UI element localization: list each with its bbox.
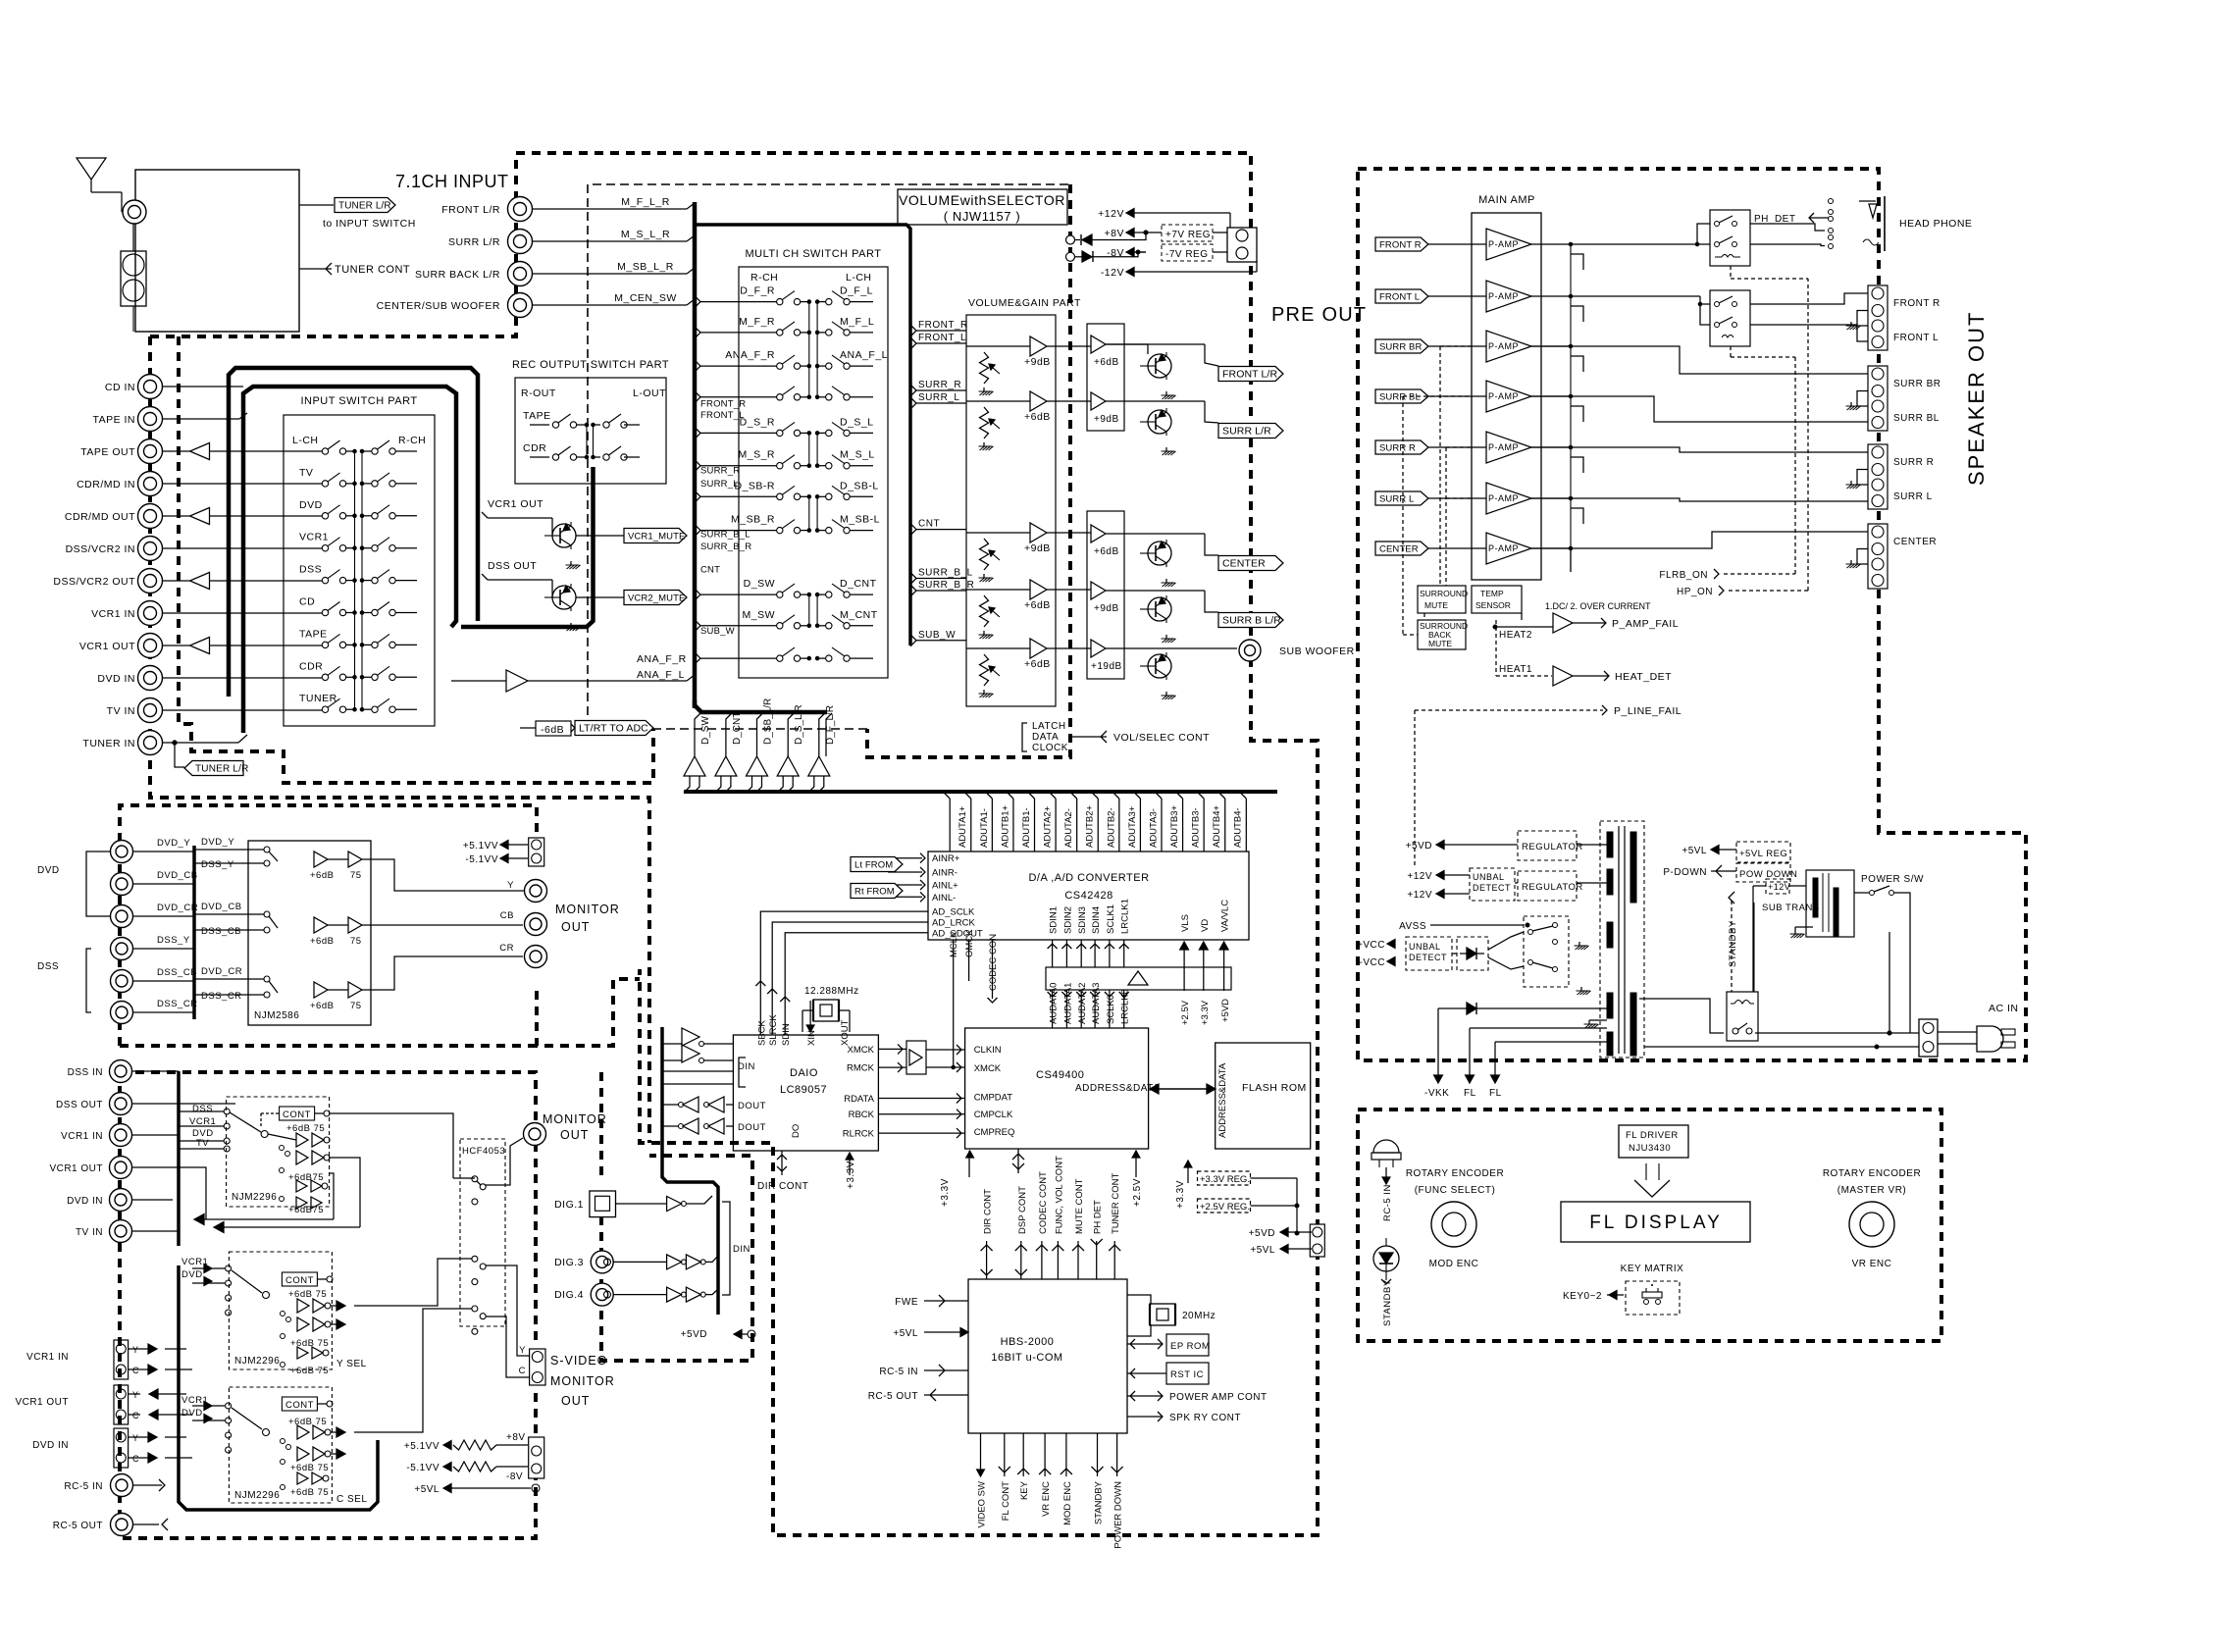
label DAIO <box>790 1067 818 1079</box>
svg-text:Y: Y <box>507 880 514 891</box>
svg-text:S-VIDEO: S-VIDEO <box>550 1354 607 1368</box>
svg-text:VCR1: VCR1 <box>189 1116 216 1127</box>
input switch row CDR <box>299 660 417 680</box>
connector DVD_CR <box>111 903 199 928</box>
wire DSS_Y <box>133 948 194 950</box>
label MAIN AMP <box>1478 194 1535 206</box>
dashed sb mute ctl <box>1403 396 1472 635</box>
svg-text:P-AMP: P-AMP <box>1488 442 1519 452</box>
pin RLRCK <box>843 1129 875 1140</box>
svg-text:+6dB: +6dB <box>310 1001 334 1011</box>
pin ADUTB1+ <box>1000 805 1010 848</box>
wire sw <box>1047 647 1237 649</box>
junction dots row 4 <box>353 579 364 583</box>
svg-text:+5.1VV: +5.1VV <box>463 841 498 852</box>
svg-text:DSS_CB: DSS_CB <box>201 926 241 937</box>
svg-text:OUT: OUT <box>561 1394 590 1408</box>
label SURR_B_R right <box>910 580 974 596</box>
svg-text:RC-5 IN: RC-5 IN <box>64 1481 103 1492</box>
CONT box 3 <box>282 1397 333 1411</box>
connector DSS OUT v <box>56 1093 131 1115</box>
sub trans gnd <box>1790 927 1814 938</box>
amp +9dB s <box>1091 392 1119 425</box>
eprom arrows <box>1127 1339 1163 1349</box>
svg-text:PRE OUT: PRE OUT <box>1271 304 1367 326</box>
wire M_CEN_SW <box>533 292 696 305</box>
ain arrow <box>888 867 925 877</box>
latch bracket <box>1022 721 1068 753</box>
svg-text:( NJW1157 ): ( NJW1157 ) <box>944 209 1021 224</box>
svg-text:CMPREQ: CMPREQ <box>974 1127 1015 1138</box>
amp box 1 <box>1087 324 1124 431</box>
connector 8v hdr <box>529 1437 544 1478</box>
ground preSW <box>1162 692 1176 699</box>
svg-text:P-AMP: P-AMP <box>1488 341 1519 351</box>
hbs pin KEY <box>1017 1433 1030 1500</box>
wires video2 <box>132 1071 235 1231</box>
svg-text:P-AMP: P-AMP <box>1488 391 1519 401</box>
connector power hdr <box>1227 228 1257 262</box>
svg-text:-6dB: -6dB <box>541 724 564 736</box>
svg-text:+19dB: +19dB <box>1091 661 1122 672</box>
svg-text:P_LINE_FAIL: P_LINE_FAIL <box>1614 705 1682 717</box>
label LC89057 <box>780 1084 827 1096</box>
transistor pre F <box>1140 352 1171 380</box>
svg-text:SENSOR: SENSOR <box>1475 600 1511 610</box>
svg-text:DVD: DVD <box>181 1408 203 1419</box>
level arrow D_SB_L/R <box>747 698 774 793</box>
amp +6dB f <box>1091 336 1119 368</box>
label +12V psu2 <box>1407 890 1470 901</box>
multi switch row nc <box>755 387 873 400</box>
svg-text:+2.5V: +2.5V <box>1180 1000 1191 1025</box>
pin lane line <box>964 792 971 852</box>
reg wires <box>1251 1178 1300 1235</box>
svg-text:+3.3V REG.: +3.3V REG. <box>1200 1174 1250 1185</box>
junction dots row 2 <box>353 514 364 518</box>
svg-text:DSS_CB: DSS_CB <box>157 967 197 978</box>
svg-text:SURR BL: SURR BL <box>1893 413 1940 424</box>
winding left <box>1607 832 1613 857</box>
rdata wires <box>879 1094 965 1139</box>
svg-text:CDR: CDR <box>523 442 546 454</box>
svg-text:+6dB 75: +6dB 75 <box>288 1417 327 1427</box>
connector MON Y <box>507 880 546 903</box>
wire FR out <box>1571 224 1710 246</box>
svg-text:FLRB_ON: FLRB_ON <box>1659 570 1708 581</box>
svg-text:12.288MHz: 12.288MHz <box>804 986 859 997</box>
svg-text:XIN: XIN <box>806 1030 817 1046</box>
input switch bus L <box>354 451 356 709</box>
wire CDR/MD IN <box>163 483 323 485</box>
svg-text:7.1CH INPUT: 7.1CH INPUT <box>395 172 509 191</box>
ground preS <box>1162 447 1176 455</box>
wire fl2 <box>1489 1042 1607 1099</box>
wire standby vert <box>1753 903 1755 992</box>
wire c sel to hcf <box>354 1309 472 1432</box>
wire f out <box>1106 344 1218 366</box>
svg-text:AINL+: AINL+ <box>932 881 958 892</box>
din bracket daio <box>738 1058 755 1087</box>
svg-text:TV IN: TV IN <box>76 1227 103 1238</box>
fb jog <box>1570 548 1572 572</box>
njm2 in wires <box>192 1268 225 1283</box>
svg-text:+6dB 75: +6dB 75 <box>290 1487 329 1498</box>
svg-text:CMPDAT: CMPDAT <box>974 1092 1013 1103</box>
transistor pre C <box>1140 540 1171 567</box>
svg-text:+12V: +12V <box>1407 871 1432 882</box>
svg-text:+6dB75: +6dB75 <box>288 1172 324 1183</box>
svg-text:SURR_L: SURR_L <box>700 479 739 490</box>
svg-text:DSS/VCR2 OUT: DSS/VCR2 OUT <box>53 576 135 588</box>
svg-text:UNBAL: UNBAL <box>1473 872 1505 882</box>
connector CDR/MD IN <box>77 472 162 496</box>
connector SURR BACK L/R <box>415 262 533 286</box>
svg-text:TAPE OUT: TAPE OUT <box>80 446 135 458</box>
svg-text:AD_SCLK: AD_SCLK <box>932 907 975 918</box>
svg-text:SURR_R: SURR_R <box>700 466 740 477</box>
pin lane line <box>1091 792 1098 852</box>
svg-text:DOUT: DOUT <box>738 1122 766 1133</box>
svg-text:MULTI CH SWITCH PART: MULTI CH SWITCH PART <box>746 248 882 260</box>
EP ROM box <box>1166 1334 1210 1356</box>
buffer amp ANA_F <box>506 670 528 692</box>
pin lane line <box>943 792 950 852</box>
connector 5.1vv hdr <box>529 838 544 866</box>
clkin wires <box>926 1045 965 1072</box>
labels DVD_Y/DSS_Y <box>201 837 234 870</box>
svg-text:DVD_CB: DVD_CB <box>201 902 242 912</box>
multi switch row D_SB-R <box>734 480 878 499</box>
svg-text:ADUTB2+: ADUTB2+ <box>1085 805 1096 848</box>
pin VLS <box>1180 914 1191 991</box>
box REGULATOR 2 <box>1518 871 1583 901</box>
svg-text:+6dB75: +6dB75 <box>288 1205 324 1215</box>
fb jog <box>1571 457 1583 473</box>
connector VCR1 IN yc <box>26 1340 139 1379</box>
label SUB_W right <box>910 630 966 646</box>
pin lane line <box>1070 792 1077 852</box>
CONT box 2 <box>282 1272 333 1286</box>
svg-text:+5VD: +5VD <box>1406 841 1432 852</box>
multi switch row M_SW <box>743 609 878 629</box>
multi dots <box>807 432 819 436</box>
transistor pre S <box>1140 408 1171 436</box>
label ADDRESS&DATA <box>1075 1083 1160 1094</box>
connector AC hdr <box>1919 1019 1938 1057</box>
multi dots <box>807 364 819 368</box>
level arrow D_S_L/R <box>777 704 804 793</box>
transistor VCR2 mute Q2 <box>544 584 576 611</box>
rst arrow <box>1127 1368 1166 1378</box>
pin AINL- <box>932 893 956 903</box>
dashed svideo box <box>599 1072 603 1177</box>
title 7.1CH INPUT <box>395 172 509 191</box>
svg-text:RST IC: RST IC <box>1170 1369 1204 1380</box>
svg-text:ROTARY ENCODER: ROTARY ENCODER <box>1406 1168 1504 1179</box>
svg-text:TV: TV <box>196 1138 209 1149</box>
svg-text:LRCLK1: LRCLK1 <box>1120 899 1131 934</box>
svg-text:LT/RT TO ADC: LT/RT TO ADC <box>579 723 648 735</box>
svg-text:-5.1VV: -5.1VV <box>465 854 498 865</box>
svg-text:SDIN4: SDIN4 <box>1091 906 1102 934</box>
label VOL/SELEC CONT <box>1113 732 1210 744</box>
label -VCC <box>1360 957 1395 968</box>
svg-text:VOLUME&GAIN PART: VOLUME&GAIN PART <box>968 297 1081 309</box>
svg-text:SUB TRANS: SUB TRANS <box>1762 903 1820 913</box>
INPUT SWITCH PART box <box>284 415 435 726</box>
tag FRONT L/R <box>1218 367 1283 382</box>
pin LRCLK0 <box>1120 989 1131 1024</box>
yc arrows dvd <box>128 1432 192 1463</box>
box +3.3V REG <box>1198 1171 1251 1185</box>
label P_LINE_FAIL <box>1602 705 1682 717</box>
svg-text:+8V: +8V <box>1105 228 1124 239</box>
svg-text:L-CH: L-CH <box>846 272 872 284</box>
svg-text:SURR_B_R: SURR_B_R <box>700 542 751 552</box>
njm3 amps r4 <box>281 1485 330 1499</box>
relay speaker front <box>1710 290 1750 346</box>
svg-text:Y: Y <box>132 1390 139 1400</box>
pin AINL+ <box>932 881 958 892</box>
wire tuner-in junction dot <box>173 741 177 745</box>
svg-text:VLS: VLS <box>1180 914 1191 932</box>
multi bus pair <box>809 594 817 626</box>
label KEY0~2 <box>1563 1291 1624 1302</box>
connector +5VD/+5VL hdr <box>1310 1224 1324 1257</box>
CONT box 1 <box>261 1107 330 1128</box>
svg-text:+12V: +12V <box>1407 890 1432 901</box>
svg-text:INPUT SWITCH PART: INPUT SWITCH PART <box>300 395 417 407</box>
winding left <box>1607 1032 1613 1056</box>
pin RBCK <box>849 1110 875 1120</box>
led standby <box>1373 1238 1399 1280</box>
junction dots row 6 <box>353 644 364 647</box>
thick bus bottom <box>695 700 827 712</box>
svg-text:Y SEL: Y SEL <box>336 1359 367 1369</box>
svg-text:+9dB: +9dB <box>1094 603 1119 614</box>
svg-text:KEY0~2: KEY0~2 <box>1563 1291 1602 1302</box>
feedback bus <box>1570 244 1572 572</box>
svg-text:M_SB_R: M_SB_R <box>731 514 775 526</box>
svg-text:OUT: OUT <box>561 920 590 934</box>
wire sb out <box>1205 591 1218 612</box>
svg-text:CLOCK: CLOCK <box>1032 743 1068 753</box>
svg-text:CENTER: CENTER <box>1379 544 1419 555</box>
tag VCR1_MUTE <box>624 529 687 543</box>
svg-text:CONT: CONT <box>283 1110 311 1120</box>
svg-text:VR ENC: VR ENC <box>1041 1481 1052 1517</box>
wire DSS_CB <box>133 980 194 982</box>
winding left <box>1607 922 1613 948</box>
label +5VL hdr <box>1250 1245 1312 1256</box>
svg-text:UNBAL: UNBAL <box>1409 942 1441 952</box>
pin CODEC CON <box>988 934 1000 1003</box>
multi switch row ANA_F_R <box>725 349 888 369</box>
pin RDATA <box>844 1094 874 1105</box>
svg-text:XMCK: XMCK <box>974 1063 1002 1074</box>
dashed hpon <box>1729 266 1808 591</box>
wire hcf y to svid <box>486 1265 529 1356</box>
label CNT right <box>910 519 966 536</box>
svg-text:FRONT_L: FRONT_L <box>700 410 745 421</box>
svg-text:M_S_R: M_S_R <box>738 449 775 461</box>
label 16BIT u-COM <box>991 1352 1062 1364</box>
ground preC <box>1162 579 1176 587</box>
wire tuner out <box>299 204 334 206</box>
svg-text:-12V: -12V <box>1101 267 1124 279</box>
bus fork <box>695 427 755 439</box>
svg-text:-7V REG: -7V REG <box>1165 249 1209 260</box>
wire fl1 <box>1464 1028 1607 1099</box>
svg-text:ADUTA2-: ADUTA2- <box>1063 808 1074 848</box>
buffer daio top1 <box>662 1028 733 1047</box>
svg-text:RBCK: RBCK <box>849 1110 875 1120</box>
svg-text:VIDEO SW: VIDEO SW <box>977 1481 988 1528</box>
svg-text:KEY MATRIX: KEY MATRIX <box>1621 1264 1684 1274</box>
label SURR_R left <box>700 466 740 477</box>
tag CENTER <box>1218 556 1283 571</box>
lane right boundary <box>826 713 832 756</box>
svg-text:REGULATOR: REGULATOR <box>1522 882 1583 893</box>
connector DSS/VCR2 IN <box>66 537 163 561</box>
svg-text:ADUTB1+: ADUTB1+ <box>1000 805 1010 848</box>
wire CB out <box>362 924 523 926</box>
svg-text:VCR1_MUTE: VCR1_MUTE <box>628 532 685 542</box>
svg-text:RLRCK: RLRCK <box>843 1129 875 1140</box>
ground preSB <box>1162 635 1176 643</box>
diode psu2 <box>1438 1003 1607 1014</box>
svg-text:P-AMP: P-AMP <box>1488 543 1519 553</box>
+3.3V daio <box>846 1153 856 1189</box>
svg-text:HEAT1: HEAT1 <box>1499 664 1532 675</box>
level arrow D_F_L/R <box>808 705 836 793</box>
inv pair 2 <box>662 1118 733 1134</box>
svg-text:AUDATA2: AUDATA2 <box>1077 983 1088 1024</box>
svg-text:DETECT: DETECT <box>1473 883 1511 893</box>
svg-text:MUTE: MUTE <box>1424 600 1448 610</box>
svg-text:(MASTER VR): (MASTER VR) <box>1837 1185 1907 1196</box>
pin lane line <box>1176 792 1183 852</box>
dashed boundary main sections <box>150 153 1318 1535</box>
label -5.1VV 2 <box>406 1462 528 1482</box>
diode +8V <box>1070 231 1148 245</box>
svg-text:DIG.1: DIG.1 <box>554 1199 584 1211</box>
thick video bus <box>192 846 196 1019</box>
dashed p_line_fail <box>1415 710 1603 868</box>
p-amp out wire SURR R <box>1531 445 1573 449</box>
wire surr br <box>1531 346 1868 374</box>
thick bus right <box>908 324 912 645</box>
codec triangle box <box>1046 967 1231 990</box>
label +VCC <box>1357 940 1395 951</box>
svg-text:STANDBY: STANDBY <box>1382 1279 1393 1326</box>
tag LT/RT TO ADC <box>571 721 653 736</box>
hbs pin STANDBY <box>1092 1433 1105 1524</box>
svg-text:ADUTA3-: ADUTA3- <box>1148 808 1159 848</box>
connector DSS_Y <box>111 935 190 960</box>
svg-text:ADUTA3+: ADUTA3+ <box>1127 805 1138 848</box>
DIR CONT arrow <box>757 1151 808 1192</box>
thick route outer <box>229 368 478 697</box>
svg-text:+5VL: +5VL <box>893 1328 918 1339</box>
multi dots <box>807 331 819 335</box>
svg-text:FRONT_R: FRONT_R <box>700 398 746 409</box>
svg-text:SURR_L: SURR_L <box>918 392 959 403</box>
p-amp out wire SURR BR <box>1531 344 1573 348</box>
svg-text:+5VD: +5VD <box>1220 999 1231 1022</box>
label R-CH multi <box>750 272 778 284</box>
svg-text:CDR/MD OUT: CDR/MD OUT <box>65 511 135 523</box>
thick adc bus <box>684 790 1277 794</box>
pin ADUTA2+ <box>1043 805 1054 848</box>
connector DVD IN yc <box>32 1428 139 1468</box>
pin SDIN3 <box>1076 906 1088 967</box>
svg-text:DSS OUT: DSS OUT <box>488 560 537 572</box>
svg-text:Y: Y <box>132 1345 139 1355</box>
svg-text:ADUTB4+: ADUTB4+ <box>1212 805 1222 848</box>
wire powsw <box>1854 892 1869 894</box>
connector CD IN <box>105 375 163 399</box>
pin AD_SDOUT <box>932 928 983 939</box>
svg-text:REGULATOR: REGULATOR <box>1522 842 1583 852</box>
hcf sw1 <box>472 1176 486 1205</box>
svg-text:C: C <box>132 1366 139 1375</box>
pin RMCK <box>847 1063 875 1074</box>
pin CMPREQ <box>974 1127 1015 1138</box>
svg-text:SBCK: SBCK <box>756 1019 767 1046</box>
svg-text:16BIT u-COM: 16BIT u-COM <box>991 1352 1062 1364</box>
wire surr r <box>1531 447 1868 452</box>
svg-text:D_S_L/R: D_S_L/R <box>794 704 804 745</box>
label RC-5 IN fp <box>1382 1184 1393 1221</box>
amp +9dB sb <box>1091 582 1119 614</box>
tag TUNER L/R to input switch <box>335 198 395 213</box>
connector VCR1 OUT v <box>49 1157 131 1179</box>
svg-text:DVD IN: DVD IN <box>67 1196 103 1207</box>
svg-text:M_CEN_SW: M_CEN_SW <box>614 292 677 304</box>
svg-text:DVD: DVD <box>181 1269 203 1280</box>
box -7V REG <box>1162 244 1213 261</box>
multi dots <box>807 464 819 468</box>
wire ad_sdout <box>780 933 928 1035</box>
dsp cont arrow <box>1012 1149 1024 1173</box>
wire f <box>1047 344 1148 354</box>
buffer amp VCR1 OUT <box>163 638 323 654</box>
speaker terminal SURR R <box>1846 444 1935 509</box>
level arrow D_CNT <box>715 712 743 793</box>
phone jack <box>1859 196 1885 251</box>
label CS42428 <box>1064 890 1112 902</box>
+2.5v cs4 bottom <box>1132 1151 1143 1207</box>
FLASH ROM box <box>1216 1043 1311 1149</box>
svg-text:75: 75 <box>350 936 362 947</box>
volume pot channel <box>966 523 1051 582</box>
svg-text:AC IN: AC IN <box>1989 1003 2019 1014</box>
dashed mainamp/power box <box>1358 169 2026 1060</box>
pin ADUTB4- <box>1233 807 1244 848</box>
pin MCLK <box>949 931 959 1069</box>
dashed flrb <box>1724 346 1795 574</box>
switch DVD_Y <box>194 847 278 866</box>
svg-text:SDIN3: SDIN3 <box>1077 906 1088 934</box>
buffer dig4 <box>613 1287 718 1302</box>
connector DIG.4 <box>554 1283 613 1306</box>
njm2 selector <box>232 1270 270 1299</box>
svg-text:AD_LRCK: AD_LRCK <box>932 918 975 929</box>
svg-text:SPK RY CONT: SPK RY CONT <box>1169 1413 1241 1423</box>
video fb arrows <box>194 1158 360 1233</box>
